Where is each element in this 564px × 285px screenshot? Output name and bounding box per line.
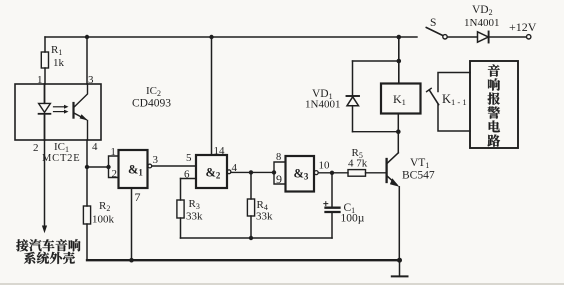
svg-text:S: S	[430, 17, 436, 29]
svg-text:7: 7	[135, 190, 141, 204]
pin 10 output bubble gate3	[314, 171, 318, 175]
relay contact K1-1	[427, 73, 470, 132]
svg-text:IC2: IC2	[146, 85, 161, 98]
node junction VD1 top	[397, 59, 402, 64]
node junction R4 bottom	[249, 236, 253, 240]
wire VD2 to +12V terminal	[489, 36, 527, 38]
svg-text:5: 5	[186, 152, 192, 164]
svg-text:K1: K1	[393, 92, 406, 107]
wire top +12V rail	[45, 36, 417, 38]
wire gate1 pin 7 to ground rail	[131, 188, 133, 260]
svg-text:1: 1	[37, 74, 43, 86]
alarm circuit box 音响报警电路	[470, 61, 518, 148]
svg-text:10: 10	[319, 160, 331, 172]
op-amp U2 NAND gate &1	[119, 150, 148, 188]
arrowhead chassis pointer	[42, 226, 47, 234]
svg-text:BC547: BC547	[402, 170, 435, 182]
node junction gate1 input bracket	[106, 165, 110, 169]
resistor R5 4.7k	[348, 147, 368, 176]
pin 3 output bubble gate1	[148, 164, 152, 168]
op-amp U4 NAND gate &3	[286, 156, 315, 192]
svg-text:R3: R3	[189, 198, 200, 211]
resistor R4 33k	[247, 172, 273, 238]
svg-text:4: 4	[92, 141, 98, 153]
wire R2 bottom to ground rail	[86, 224, 88, 260]
svg-text:1: 1	[111, 147, 116, 158]
wire R5 to VT1 base	[366, 172, 387, 174]
switch S	[426, 17, 447, 39]
node junction emitter/ground rail	[397, 258, 402, 263]
diode VD2 1N4001	[464, 4, 499, 43]
wire gate2 output to gate3 inputs	[231, 171, 274, 173]
text chassis connection line1 接汽车音响	[16, 239, 80, 251]
text chassis connection line2 系统外壳	[24, 252, 75, 264]
wire gate1 output to gate2 pin5	[152, 165, 196, 167]
svg-text:R2: R2	[99, 200, 110, 213]
svg-text:100µ: 100µ	[341, 213, 365, 225]
light arrows inside IC1	[54, 105, 69, 114]
svg-text:3: 3	[153, 154, 159, 166]
transistor phototransistor inside IC1	[74, 84, 88, 140]
resistor R2 100k	[83, 200, 114, 226]
wire pin 14 from top rail to gate2	[211, 37, 213, 155]
wire gate3 output to R5	[318, 172, 348, 174]
svg-text:1N4001: 1N4001	[464, 17, 499, 29]
wire relay branch from top rail	[398, 37, 400, 84]
svg-text:VD2: VD2	[472, 4, 493, 17]
wire R3/R4/C1 bottom bus	[181, 237, 333, 239]
svg-text:3: 3	[88, 74, 94, 86]
svg-text:+12V: +12V	[509, 20, 537, 34]
wire VT1 emitter down to ground rail	[398, 187, 400, 260]
node junction relay branch on top rail	[397, 35, 402, 40]
svg-text:CD4093: CD4093	[132, 98, 171, 110]
svg-text:33k: 33k	[256, 211, 273, 223]
svg-text:4 7k: 4 7k	[348, 158, 368, 170]
wire VT1 collector up to relay	[397, 114, 399, 153]
node junction gate3 input bracket	[272, 170, 276, 174]
op-amp U1 optocoupler IC1 MCT2E box	[15, 84, 101, 140]
node junction pin4 / gate1 input	[85, 165, 89, 169]
node junction C1 tap	[330, 171, 334, 175]
wire (scan artifact bottom edge)	[0, 283, 564, 285]
node junction VD1 bottom	[396, 129, 401, 134]
resistor R3 33k	[177, 179, 203, 239]
wire gate3 input bracket	[274, 162, 286, 184]
svg-text:2: 2	[33, 142, 39, 154]
svg-text:K1 - 1: K1 - 1	[442, 92, 467, 107]
svg-text:R1: R1	[51, 44, 62, 57]
svg-text:100k: 100k	[92, 214, 115, 226]
svg-text:1k: 1k	[53, 57, 65, 69]
node junction R4 tap	[249, 170, 253, 174]
LED inside IC1	[39, 84, 51, 140]
svg-text:9: 9	[276, 172, 282, 186]
node +12V terminal	[509, 20, 537, 39]
svg-text:VT1: VT1	[410, 157, 429, 170]
wire opto pin 4 down	[86, 140, 88, 206]
diode VD1 1N4001 flyback	[305, 61, 399, 132]
wire gate1 input bracket	[109, 156, 119, 178]
wire switch to VD2	[447, 36, 477, 38]
wire opto pin 2 down to chassis	[44, 140, 46, 227]
svg-text:6: 6	[184, 169, 190, 181]
relay K1 coil box	[381, 84, 421, 114]
svg-text:MCT2E: MCT2E	[42, 153, 80, 164]
svg-text:1N4001: 1N4001	[305, 99, 340, 111]
svg-text:2: 2	[112, 168, 118, 180]
ground symbol	[392, 260, 408, 276]
svg-text:33k: 33k	[186, 211, 203, 223]
node junction pin7 on ground rail	[129, 258, 134, 263]
capacitor C1 100u	[324, 173, 365, 238]
svg-text:8: 8	[276, 152, 281, 163]
wire opto pin 3 to top rail	[86, 37, 88, 84]
pin 6 stub wire	[181, 178, 197, 180]
svg-text:&2: &2	[206, 166, 221, 181]
node junction R1/opto pin3 on top rail	[85, 35, 89, 39]
wire bottom ground rail	[87, 259, 400, 261]
wire opto pin4 node to gate1 inputs	[87, 166, 109, 168]
svg-text:&3: &3	[294, 167, 309, 182]
op-amp U3 NAND gate &2	[196, 155, 227, 188]
transistor Q1 VT1 BC547	[387, 153, 435, 187]
pin 4 output bubble gate2	[227, 170, 231, 174]
node junction pin14 on top rail	[209, 35, 213, 39]
svg-text:&1: &1	[128, 163, 143, 178]
resistor R1 1k	[41, 37, 64, 84]
